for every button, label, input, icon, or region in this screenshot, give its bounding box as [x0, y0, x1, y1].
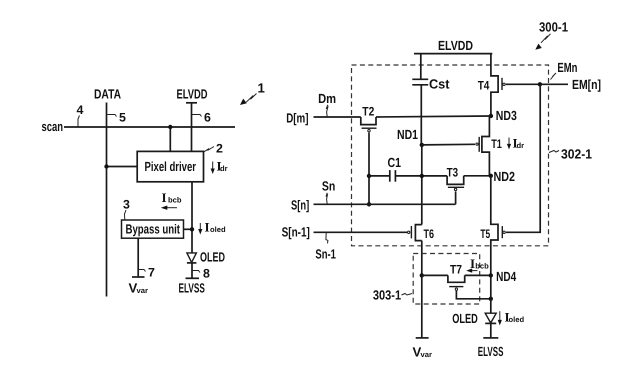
junction dot ND3 — [489, 114, 493, 118]
junction dot ND1 — [420, 143, 424, 147]
svg-text:I: I — [470, 256, 475, 271]
terminal ELVSS (left) — [179, 278, 205, 295]
junction dot ND2 — [489, 174, 493, 178]
pointer label Dm — [318, 91, 336, 116]
wire T6 down to T7 node — [421, 241, 423, 276]
svg-text:3: 3 — [123, 198, 130, 212]
current arrow Idr (right) — [507, 136, 524, 151]
svg-text:Pixel driver: Pixel driver — [145, 159, 197, 174]
svg-text:7: 7 — [148, 266, 155, 280]
wire T2 to ND3 — [376, 116, 491, 117]
svg-text:Cst: Cst — [429, 76, 450, 91]
svg-text:T6: T6 — [424, 227, 435, 241]
svg-text:ELVSS: ELVSS — [179, 280, 205, 295]
wire T7 node to Vvar — [421, 275, 423, 338]
svg-text:oled: oled — [210, 225, 226, 234]
svg-text:Sn: Sn — [322, 179, 335, 194]
wire T7 to ND4 — [465, 274, 491, 276]
junction dot bypass node — [190, 227, 194, 231]
label 303-1 — [373, 288, 412, 303]
svg-text:bcb: bcb — [475, 261, 489, 270]
wire C1 to T3 — [395, 175, 447, 177]
junction dot ND1 / C1 — [420, 174, 424, 178]
junction dot T7 gate node — [489, 297, 493, 301]
wire DATA line — [106, 103, 108, 297]
wire OLED to ELVSS — [191, 263, 193, 278]
svg-text:ELVDD: ELVDD — [438, 38, 473, 53]
svg-text:T3: T3 — [447, 165, 459, 179]
svg-text:Bypass unit: Bypass unit — [126, 222, 181, 237]
junction dot T2 gate / C1 — [367, 174, 371, 178]
label 8 — [193, 267, 211, 281]
label 5 — [108, 111, 127, 125]
svg-text:6: 6 — [204, 111, 211, 125]
svg-text:I: I — [205, 220, 210, 235]
svg-text:var: var — [137, 286, 148, 295]
capacitor Cst — [412, 76, 450, 91]
transistor T3 — [447, 165, 465, 190]
dashed box 303-1 — [413, 254, 480, 305]
wire pixel driver to OLED — [191, 182, 193, 253]
wire DATA to pixel driver — [107, 166, 138, 168]
wire ND4 to OLED — [490, 275, 492, 313]
junction dot scan line — [168, 125, 172, 129]
transistor T6 — [408, 225, 435, 242]
dashed box 302-1 — [352, 65, 549, 246]
wire bypass unit to OLED node — [184, 228, 193, 230]
wire scan to pixel driver — [169, 127, 171, 151]
wire S[n] line — [314, 203, 456, 205]
svg-text:oled: oled — [509, 315, 525, 324]
wire bypass unit to Vvar — [137, 238, 139, 277]
svg-text:ND3: ND3 — [496, 108, 517, 123]
svg-text:2: 2 — [216, 142, 223, 156]
junction dot T7 left node — [420, 273, 424, 277]
svg-text:dr: dr — [517, 141, 525, 150]
svg-text:EMn: EMn — [557, 60, 577, 75]
label 7 — [139, 266, 155, 280]
junction dot EM node — [538, 82, 542, 86]
junction dot DATA line — [104, 164, 108, 168]
wire T3 to ND2 — [464, 175, 491, 177]
transistor T5 — [480, 176, 505, 276]
svg-text:var: var — [421, 350, 432, 359]
label 4 — [77, 103, 84, 127]
svg-text:ELVSS: ELVSS — [478, 344, 504, 359]
svg-text:ND4: ND4 — [496, 269, 517, 284]
label 2 — [204, 142, 223, 156]
label 3 — [123, 198, 130, 221]
transistor T7 — [448, 262, 465, 290]
svg-text:EM[n]: EM[n] — [572, 77, 601, 92]
capacitor C1 — [388, 155, 402, 182]
svg-text:S[n-1]: S[n-1] — [282, 225, 310, 240]
node EMn label — [551, 60, 578, 80]
svg-text:D[m]: D[m] — [286, 111, 308, 126]
wire scan line — [64, 126, 235, 128]
wire OLED to ELVSS — [490, 323, 492, 338]
svg-text:S[n]: S[n] — [291, 198, 309, 213]
svg-text:5: 5 — [119, 111, 126, 125]
svg-text:ND1: ND1 — [397, 127, 418, 142]
wire D[m] line — [314, 116, 361, 118]
wire T2 gate to C1 — [369, 175, 390, 177]
terminal Vvar (left) — [129, 277, 148, 296]
diode OLED (right) — [452, 311, 496, 326]
wire ND1 down through S[n] to T6 — [421, 145, 423, 225]
svg-text:T2: T2 — [362, 104, 374, 118]
power ELVDD (right) — [414, 38, 492, 54]
diode OLED (left) — [187, 249, 225, 264]
wire T3 gate down to S[n] — [455, 191, 457, 204]
svg-text:OLED: OLED — [200, 249, 225, 264]
svg-text:T5: T5 — [480, 227, 490, 241]
wire Cst to ND1 — [420, 85, 422, 145]
wire T7 gate to ND4 line — [456, 291, 490, 299]
wire ELVDD to Cst — [420, 54, 422, 80]
wire T5 gate to EM line — [506, 84, 540, 232]
wire ND1 to T1 gate — [422, 143, 475, 146]
svg-text:1: 1 — [258, 81, 265, 96]
terminal Vvar (right) — [413, 338, 432, 360]
svg-text:T4: T4 — [478, 79, 490, 93]
svg-text:T1: T1 — [491, 137, 502, 151]
svg-text:OLED: OLED — [452, 311, 478, 326]
terminal ELVSS (right) — [478, 338, 504, 359]
svg-text:C1: C1 — [388, 155, 402, 170]
svg-text:DATA: DATA — [94, 87, 121, 102]
transistor T1 — [476, 116, 502, 176]
svg-text:I: I — [162, 190, 167, 205]
svg-text:4: 4 — [77, 103, 84, 117]
current label Ibcb (left) — [161, 190, 182, 210]
svg-text:300-1: 300-1 — [539, 20, 568, 35]
junction dot ND4 — [489, 273, 493, 277]
pointer label Sn-1 — [315, 233, 336, 262]
label 302-1 — [549, 147, 592, 162]
current arrow Ioled (right) — [498, 310, 525, 326]
svg-text:bcb: bcb — [168, 195, 182, 204]
svg-text:scan: scan — [42, 119, 64, 134]
pointer label Sn — [322, 179, 335, 204]
wire T7 left — [422, 274, 448, 276]
svg-text:ND2: ND2 — [494, 169, 516, 184]
junction dot T2 gate / S[n] — [367, 202, 371, 206]
svg-text:Sn-1: Sn-1 — [315, 247, 336, 262]
transistor T2 — [361, 104, 377, 131]
svg-text:8: 8 — [203, 267, 210, 281]
wire S[n-1] line to T6 gate — [314, 231, 408, 233]
current arrow Idr (left) — [211, 159, 228, 175]
svg-text:dr: dr — [220, 164, 228, 173]
transistor T4 — [478, 54, 505, 116]
wire T4 gate to EM[n] — [506, 83, 568, 85]
pointer label 300-1 — [535, 20, 568, 50]
wire ELVDD to pixel driver — [191, 103, 193, 152]
label 6 — [192, 111, 211, 125]
svg-text:Dm: Dm — [318, 91, 336, 106]
pointer label 1 — [240, 81, 265, 106]
power ELVDD (left) — [177, 87, 208, 103]
svg-text:303-1: 303-1 — [373, 288, 401, 303]
wire T2 gate down to S[n] — [368, 133, 370, 205]
svg-text:ELVDD: ELVDD — [177, 87, 208, 102]
svg-text:302-1: 302-1 — [561, 147, 592, 162]
current arrow Ioled (left) — [198, 220, 226, 235]
block bypass unit (3) — [122, 220, 184, 238]
current label Ibcb (right) — [466, 256, 489, 273]
svg-text:T7: T7 — [450, 262, 462, 276]
block pixel driver (2) — [137, 151, 203, 181]
